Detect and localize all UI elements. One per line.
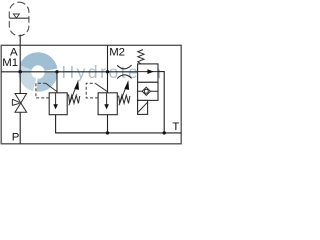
relief valve RV2 inlet wire [107, 72, 109, 93]
node RV2 outlet junction [106, 131, 109, 134]
relief valve RV1 internal arrow [55, 93, 57, 105]
wire M2 drop [107, 45, 109, 72]
wire shut-off valve to P port [19, 112, 21, 144]
node CV outlet junction [163, 131, 166, 134]
relief valve RV1 pilot line (dashed) [36, 83, 57, 98]
relief valve RV1 spring [67, 95, 80, 104]
orifice on rail [117, 65, 131, 69]
accumulator gas line [9, 17, 29, 19]
charging valve CV position 2 (check) [138, 82, 158, 100]
relief valve RV2 adjust arrow [119, 88, 126, 106]
accumulator gas triangle [13, 14, 19, 18]
relief valve RV1 inlet wire [56, 72, 58, 93]
relief valve RV2 outlet wire [107, 115, 109, 133]
svg-text:M2: M2 [109, 47, 125, 59]
svg-text:M1: M1 [2, 57, 18, 69]
relief valve RV1 outlet wire [56, 115, 108, 133]
charging valve CV outlet wire [158, 72, 164, 133]
watermark logo swirl [25, 59, 51, 85]
node valve1 inlet junction [55, 70, 58, 73]
relief valve RV2 pilot line (dashed) [86, 83, 107, 98]
charging valve CV position 1 (flow) [138, 64, 158, 82]
svg-text:P: P [12, 132, 20, 144]
relief valve RV2 body [98, 93, 117, 115]
shut-off valve V1 [12, 94, 26, 113]
node accumulator junction [19, 70, 22, 73]
charging valve CV spring [138, 50, 144, 64]
relief valve RV2 internal arrow [106, 93, 108, 105]
wire T rail [56, 132, 182, 134]
wire A/M1 rail [1, 71, 137, 73]
wire junction to shut-off valve [19, 72, 21, 94]
charging valve CV orifice box with diagonal [138, 100, 148, 114]
svg-text:T: T [172, 121, 179, 133]
accumulator (dash-dot capsule) [9, 2, 29, 36]
node M2 / valve2 inlet junction [106, 70, 109, 73]
relief valve RV1 body [49, 93, 67, 115]
relief valve RV2 spring [117, 95, 130, 103]
manifold block outline [1, 45, 181, 144]
relief valve RV1 adjust arrow [69, 88, 76, 106]
wire accumulator stem [19, 35, 21, 72]
